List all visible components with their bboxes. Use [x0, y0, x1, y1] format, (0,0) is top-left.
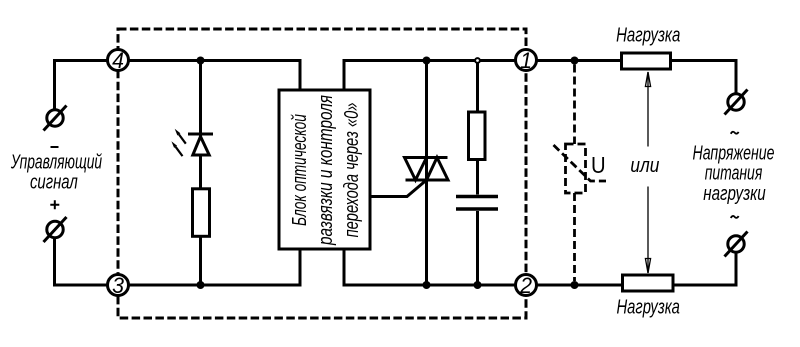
- svg-text:питания: питания: [705, 161, 763, 184]
- svg-text:2: 2: [519, 273, 532, 298]
- svg-text:U: U: [591, 152, 606, 179]
- svg-text:перехода через «0»: перехода через «0»: [340, 102, 363, 237]
- svg-text:Управляющий: Управляющий: [10, 150, 102, 173]
- svg-text:Нагрузка: Нагрузка: [616, 23, 680, 46]
- svg-text:4: 4: [112, 48, 124, 73]
- svg-text:развязки и контроля: развязки и контроля: [314, 95, 336, 246]
- svg-text:Нагрузка: Нагрузка: [616, 295, 680, 318]
- svg-text:1: 1: [520, 48, 532, 73]
- svg-text:3: 3: [112, 273, 124, 298]
- svg-text:Блок оптической: Блок оптической: [287, 114, 310, 226]
- svg-text:сигнал: сигнал: [30, 171, 78, 194]
- svg-text:или: или: [630, 154, 660, 176]
- svg-text:нагрузки: нагрузки: [703, 182, 766, 205]
